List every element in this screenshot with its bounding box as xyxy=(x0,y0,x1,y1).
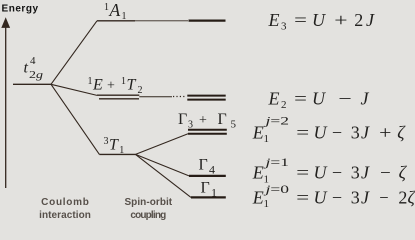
svg-text:E: E xyxy=(268,10,280,30)
svg-text:Γ: Γ xyxy=(178,111,187,128)
svg-text:E: E xyxy=(252,122,264,142)
svg-text:+: + xyxy=(107,79,115,94)
formula E1 j=0 xyxy=(252,182,415,210)
Gamma4 label xyxy=(199,157,216,177)
svg-text:+: + xyxy=(199,113,207,128)
svg-text:1: 1 xyxy=(264,133,270,145)
svg-text:1: 1 xyxy=(121,76,126,87)
svg-text:2: 2 xyxy=(138,85,143,96)
svg-text:E: E xyxy=(268,89,280,109)
svg-text:Γ: Γ xyxy=(201,180,210,197)
1E+1T2 label xyxy=(88,76,143,96)
svg-text:3: 3 xyxy=(281,20,287,32)
svg-text:2g: 2g xyxy=(29,69,44,81)
E3 level line xyxy=(189,20,226,22)
svg-text:−: − xyxy=(332,187,342,207)
svg-text:J: J xyxy=(366,10,375,30)
svg-text:T: T xyxy=(109,137,119,154)
wire 3T1 to G4 xyxy=(136,154,190,176)
svg-text:−: − xyxy=(379,187,388,207)
svg-text:Γ: Γ xyxy=(218,111,227,128)
svg-text:=: = xyxy=(296,122,309,142)
svg-text:J: J xyxy=(361,89,370,109)
3T1 level line xyxy=(99,153,135,155)
svg-text:Energy: Energy xyxy=(2,4,39,15)
svg-text:1: 1 xyxy=(88,76,93,87)
E2 double level line xyxy=(187,95,225,97)
svg-text:2: 2 xyxy=(354,10,363,30)
1E+1T2 double level line xyxy=(97,94,139,96)
energy axis arrow xyxy=(1,17,10,188)
svg-text:−: − xyxy=(338,89,351,109)
formula E1 j=2 xyxy=(252,113,407,145)
svg-text:Spin-orbit: Spin-orbit xyxy=(124,197,172,208)
svg-text:2: 2 xyxy=(281,99,287,111)
t2g^4 label xyxy=(24,55,44,81)
svg-text:j=0: j=0 xyxy=(263,182,289,196)
svg-text:ζ: ζ xyxy=(408,187,415,207)
svg-text:+: + xyxy=(379,122,391,142)
svg-text:=: = xyxy=(294,10,307,30)
svg-text:J: J xyxy=(361,187,370,207)
svg-text:Coulomb: Coulomb xyxy=(41,197,89,208)
svg-text:1: 1 xyxy=(104,2,109,13)
svg-text:U: U xyxy=(314,187,328,207)
Gamma3+Gamma5 double level line xyxy=(188,129,227,131)
svg-text:T: T xyxy=(127,77,137,94)
svg-text:coupling: coupling xyxy=(130,210,166,221)
svg-text:3: 3 xyxy=(351,187,360,207)
svg-text:J: J xyxy=(361,163,370,183)
t2g level line xyxy=(13,83,51,85)
svg-text:5: 5 xyxy=(231,119,237,131)
1A1 level line xyxy=(97,20,135,22)
svg-text:+: + xyxy=(334,10,347,30)
svg-text:4: 4 xyxy=(209,163,215,177)
svg-text:E: E xyxy=(252,187,264,207)
formula E1 j=1 xyxy=(252,155,408,186)
wire t2g to 1A1 xyxy=(51,21,97,85)
svg-text:interaction: interaction xyxy=(39,210,91,221)
3T1 label xyxy=(104,136,125,156)
svg-text:U: U xyxy=(312,89,326,109)
svg-text:=: = xyxy=(294,89,307,109)
svg-text:=: = xyxy=(296,187,309,207)
svg-text:3: 3 xyxy=(351,122,360,142)
Gamma3+Gamma5 label xyxy=(178,111,237,131)
1A1 label xyxy=(104,0,127,22)
svg-text:4: 4 xyxy=(30,55,36,67)
svg-text:Γ: Γ xyxy=(199,157,208,174)
connector 1E+1T2 to E2 (part solid, part dotted) xyxy=(139,96,172,98)
svg-text:t: t xyxy=(24,60,29,77)
Gamma1 level line xyxy=(191,196,226,198)
svg-text:j=1: j=1 xyxy=(263,155,289,169)
svg-text:1: 1 xyxy=(264,198,270,210)
svg-text:−: − xyxy=(332,163,342,183)
svg-text:E: E xyxy=(252,163,264,183)
svg-text:=: = xyxy=(296,163,309,183)
svg-text:−: − xyxy=(332,122,342,142)
formula E2 = U - J xyxy=(268,89,370,112)
wire t2g to 3T1 xyxy=(51,84,99,154)
svg-text:J: J xyxy=(361,122,370,142)
svg-text:3: 3 xyxy=(104,136,109,147)
wire t2g to 1E+1T2 xyxy=(51,84,97,95)
connector 1A1 to E3 xyxy=(135,20,188,22)
svg-text:−: − xyxy=(380,163,391,183)
svg-text:U: U xyxy=(314,122,328,142)
svg-text:2: 2 xyxy=(398,187,407,207)
Gamma4 level line xyxy=(189,175,226,177)
svg-text:3: 3 xyxy=(351,163,360,183)
svg-text:E: E xyxy=(92,77,103,94)
wire 3T1 to G35 xyxy=(136,134,189,155)
svg-text:U: U xyxy=(314,163,328,183)
wire 3T1 to G1 xyxy=(136,154,192,197)
Gamma1 label xyxy=(201,180,218,200)
svg-text:A: A xyxy=(109,0,121,20)
svg-text:U: U xyxy=(312,10,326,30)
formula E3 = U + 2J xyxy=(268,10,376,33)
svg-text:j=2: j=2 xyxy=(263,113,289,127)
